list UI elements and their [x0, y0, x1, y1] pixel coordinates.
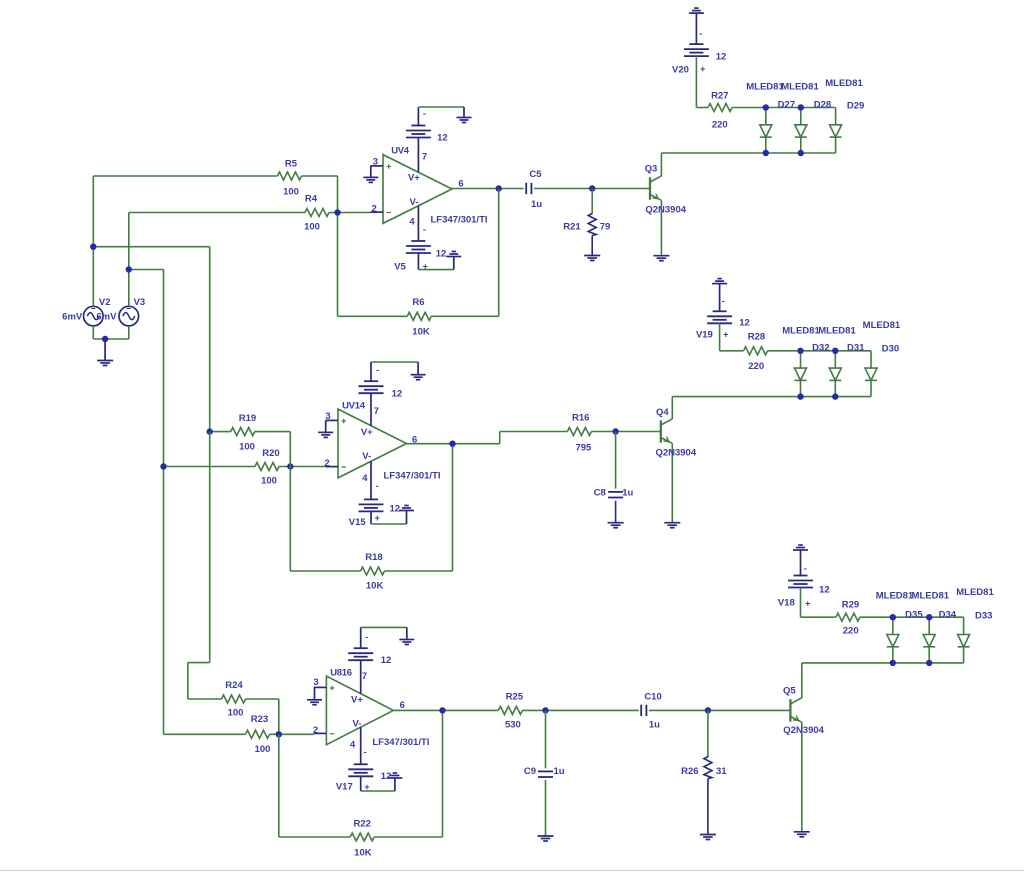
- svg-text:Q2N3904: Q2N3904: [645, 205, 686, 216]
- svg-text:V+: V+: [361, 427, 373, 438]
- svg-text:220: 220: [712, 120, 728, 131]
- svg-text:-: -: [423, 225, 426, 235]
- svg-text:V+: V+: [351, 694, 363, 705]
- svg-text:2: 2: [324, 458, 329, 469]
- svg-text:MLED81: MLED81: [818, 326, 856, 337]
- svg-text:12: 12: [436, 249, 447, 260]
- svg-text:R5: R5: [285, 159, 298, 170]
- svg-text:79: 79: [600, 222, 611, 233]
- svg-text:V18: V18: [778, 597, 795, 608]
- svg-text:MLED81: MLED81: [782, 326, 820, 337]
- svg-text:100: 100: [304, 222, 320, 233]
- svg-text:6mV: 6mV: [62, 312, 83, 323]
- svg-text:1u: 1u: [531, 199, 542, 210]
- svg-text:-: -: [804, 563, 807, 573]
- svg-text:R20: R20: [262, 448, 279, 459]
- svg-text:R22: R22: [353, 818, 370, 829]
- svg-text:LF347/301/TI: LF347/301/TI: [383, 470, 440, 481]
- svg-text:LF347/301/TI: LF347/301/TI: [372, 737, 429, 748]
- svg-text:2: 2: [372, 204, 377, 215]
- svg-text:D34: D34: [939, 609, 957, 620]
- svg-text:+: +: [423, 262, 428, 272]
- svg-text:LF347/301/TI: LF347/301/TI: [430, 215, 487, 226]
- svg-text:C8: C8: [594, 488, 606, 499]
- svg-text:MLED81: MLED81: [863, 320, 901, 331]
- svg-text:D30: D30: [882, 344, 899, 355]
- svg-text:UV14: UV14: [342, 400, 366, 411]
- svg-text:+: +: [375, 513, 380, 523]
- svg-text:220: 220: [748, 361, 764, 372]
- svg-text:1u: 1u: [649, 720, 660, 731]
- svg-text:R4: R4: [305, 194, 318, 205]
- svg-text:4: 4: [350, 740, 356, 751]
- svg-text:+: +: [364, 782, 369, 792]
- svg-text:UV4: UV4: [391, 146, 410, 157]
- svg-text:R26: R26: [681, 766, 698, 777]
- svg-text:-: -: [376, 481, 379, 491]
- svg-text:V15: V15: [349, 517, 367, 528]
- svg-text:6: 6: [400, 700, 405, 711]
- svg-text:V+: V+: [408, 173, 420, 184]
- svg-text:C9: C9: [524, 766, 536, 777]
- svg-text:V3: V3: [134, 297, 146, 308]
- svg-text:-: -: [722, 296, 725, 306]
- svg-text:R16: R16: [572, 413, 589, 424]
- svg-text:V17: V17: [336, 782, 353, 793]
- svg-text:C10: C10: [644, 691, 661, 702]
- svg-text:100: 100: [283, 187, 299, 198]
- svg-text:-: -: [365, 632, 368, 642]
- svg-text:10K: 10K: [412, 327, 430, 338]
- svg-text:Q2N3904: Q2N3904: [783, 725, 824, 736]
- svg-text:R25: R25: [506, 691, 524, 702]
- svg-text:MLED81: MLED81: [912, 591, 950, 602]
- svg-text:12: 12: [437, 133, 448, 144]
- svg-text:12: 12: [819, 584, 830, 595]
- svg-text:Q3: Q3: [645, 164, 658, 175]
- svg-text:R18: R18: [365, 552, 382, 563]
- svg-text:MLED81: MLED81: [781, 82, 819, 93]
- svg-text:-: -: [364, 747, 367, 757]
- svg-text:MLED81: MLED81: [746, 82, 784, 93]
- svg-text:+: +: [700, 64, 705, 74]
- svg-text:+: +: [805, 599, 810, 609]
- svg-text:12: 12: [716, 52, 727, 63]
- svg-text:V-: V-: [362, 451, 371, 462]
- svg-text:R21: R21: [563, 222, 581, 233]
- svg-text:D35: D35: [905, 609, 923, 620]
- svg-text:MLED81: MLED81: [956, 587, 994, 598]
- svg-text:D28: D28: [814, 100, 831, 111]
- svg-text:7: 7: [374, 406, 379, 417]
- svg-text:R24: R24: [225, 680, 243, 691]
- svg-text:3: 3: [313, 677, 318, 688]
- svg-text:220: 220: [843, 626, 859, 637]
- svg-text:1u: 1u: [553, 766, 564, 777]
- svg-text:12: 12: [381, 771, 392, 782]
- svg-text:R28: R28: [748, 332, 765, 343]
- svg-text:100: 100: [239, 442, 255, 453]
- svg-text:3: 3: [325, 411, 330, 422]
- svg-text:31: 31: [716, 766, 727, 777]
- svg-text:Q4: Q4: [656, 407, 669, 418]
- svg-text:100: 100: [228, 708, 244, 719]
- svg-text:V5: V5: [394, 262, 406, 273]
- svg-text:-: -: [376, 365, 379, 375]
- svg-text:R27: R27: [711, 91, 728, 102]
- svg-text:D32: D32: [812, 343, 829, 354]
- svg-text:7: 7: [422, 152, 427, 163]
- svg-text:4: 4: [362, 473, 368, 484]
- svg-text:D31: D31: [847, 343, 865, 354]
- svg-text:V19: V19: [696, 330, 713, 341]
- svg-text:530: 530: [505, 720, 521, 731]
- svg-text:-: -: [699, 29, 702, 39]
- svg-text:10K: 10K: [366, 581, 384, 592]
- svg-text:C5: C5: [529, 169, 542, 180]
- svg-text:10K: 10K: [354, 848, 372, 859]
- svg-text:R6: R6: [412, 297, 424, 308]
- svg-text:R29: R29: [842, 599, 859, 610]
- svg-text:R19: R19: [239, 413, 256, 424]
- svg-text:Q2N3904: Q2N3904: [655, 448, 696, 459]
- svg-text:Q5: Q5: [783, 686, 796, 697]
- svg-text:3: 3: [373, 157, 378, 168]
- svg-text:D33: D33: [975, 611, 992, 622]
- svg-text:4: 4: [409, 217, 415, 228]
- svg-text:12: 12: [739, 318, 750, 329]
- svg-text:-: -: [423, 109, 426, 120]
- svg-text:MLED81: MLED81: [876, 591, 914, 602]
- svg-text:7: 7: [362, 671, 367, 682]
- svg-text:100: 100: [261, 476, 277, 487]
- svg-text:12: 12: [392, 388, 403, 399]
- svg-text:MLED81: MLED81: [825, 78, 863, 89]
- svg-text:R23: R23: [251, 714, 268, 725]
- svg-text:12: 12: [381, 655, 392, 666]
- svg-text:D27: D27: [778, 100, 795, 111]
- svg-text:V2: V2: [99, 297, 111, 308]
- svg-text:6mV: 6mV: [96, 312, 117, 323]
- svg-text:U816: U816: [330, 668, 352, 679]
- svg-text:1u: 1u: [622, 488, 633, 499]
- svg-text:V-: V-: [410, 197, 419, 208]
- svg-text:100: 100: [255, 744, 271, 755]
- svg-text:D29: D29: [847, 101, 864, 112]
- svg-text:12: 12: [390, 504, 401, 515]
- svg-text:+: +: [723, 330, 728, 340]
- svg-text:795: 795: [575, 442, 592, 453]
- svg-text:V20: V20: [672, 65, 689, 76]
